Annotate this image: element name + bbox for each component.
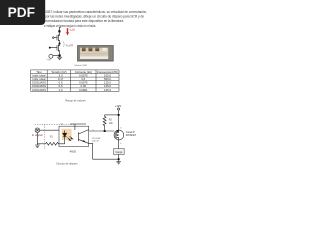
wire load to rail — [118, 154, 120, 159]
svg-text:Tipo: Tipo — [36, 70, 42, 74]
svg-text:Rango de valores: Rango de valores — [65, 99, 86, 103]
svg-text:Corriente (kA): Corriente (kA) — [75, 70, 92, 74]
svg-text:vS(t): vS(t) — [47, 58, 52, 61]
LED D1 — [63, 130, 73, 144]
svg-text:Indiv. ideal: Indiv. ideal — [32, 77, 45, 81]
wire ground to R1 — [37, 143, 45, 145]
svg-text:MOSFET: MOSFET — [126, 134, 137, 137]
svg-text:125.0: 125.0 — [104, 84, 111, 88]
note text — [92, 138, 101, 142]
svg-text:COOLMOS: COOLMOS — [32, 81, 46, 85]
svg-text:0.0075: 0.0075 — [79, 81, 88, 85]
gate terminal Q1 — [53, 37, 55, 39]
svg-text:100.0: 100.0 — [104, 73, 111, 77]
svg-text:5: 5 — [93, 129, 94, 131]
svg-text:Frecuencia (kHz): Frecuencia (kHz) — [97, 70, 118, 74]
svg-text:COOLMOS: COOLMOS — [32, 88, 46, 92]
opto LED highlight — [62, 129, 72, 140]
wire +12V down — [118, 110, 120, 131]
phototransistor — [75, 126, 89, 143]
voltage source V1 — [49, 54, 53, 58]
svg-text:0.0075: 0.0075 — [79, 73, 88, 77]
svg-text:por las redes investigadas, di: por las redes investigadas, dibuje un ci… — [45, 14, 144, 18]
emitter wire to rail — [89, 143, 93, 159]
svg-text:4N35: 4N35 — [70, 150, 77, 154]
base pin wire — [70, 124, 86, 126]
svg-text:100 nF: 100 nF — [92, 141, 99, 143]
svg-text:0.6: 0.6 — [59, 84, 63, 88]
LED emission arrows — [68, 138, 71, 141]
node +12V split — [118, 114, 120, 116]
node bottom — [59, 54, 61, 56]
input source P1 — [35, 128, 59, 144]
wire R2 bottom to gate node — [104, 127, 106, 131]
svg-text:Circuito de disparo: Circuito de disparo — [56, 162, 78, 166]
svg-text:COOLMOS: COOLMOS — [32, 84, 46, 88]
svg-text:125.0: 125.0 — [104, 88, 111, 92]
svg-text:+12V: +12V — [115, 104, 122, 108]
svg-text:Tensión (kV): Tensión (kV) — [51, 70, 66, 74]
svg-text:In signal: In signal — [32, 134, 43, 137]
transistor Q2 (lower MOSFET) — [50, 47, 57, 49]
resistor R1 — [46, 142, 65, 145]
svg-text:Indiv. ideal: Indiv. ideal — [32, 73, 45, 77]
svg-text:3.3: 3.3 — [59, 73, 63, 77]
svg-text:500.0: 500.0 — [104, 77, 111, 81]
node top — [58, 30, 60, 32]
resistor R2 label — [109, 119, 114, 126]
gate wire — [89, 130, 115, 132]
resistor R2 — [103, 115, 106, 127]
transistor Q1 MOSFET — [114, 130, 124, 149]
label vDS(t) — [64, 42, 74, 48]
svg-text:0.6: 0.6 — [59, 81, 63, 85]
bottom rail — [93, 158, 119, 160]
svg-text:conmutación forzada para este: conmutación forzada para este dispositiv… — [45, 19, 124, 23]
svg-text:1.0: 1.0 — [59, 88, 63, 92]
svg-text:0.36: 0.36 — [81, 84, 87, 88]
ground — [118, 160, 120, 161]
paragraph text — [44, 10, 147, 28]
junction gate/mosfet — [117, 130, 119, 132]
optocoupler U1 box — [59, 126, 89, 146]
power terminal — [118, 108, 120, 110]
MOSFET label — [120, 128, 136, 145]
svg-text:PDF: PDF — [8, 5, 35, 20]
wire top stub — [58, 28, 60, 34]
svg-text:Carga: Carga — [115, 151, 122, 154]
wire to R2 top — [105, 114, 119, 116]
svg-text:0.6: 0.6 — [81, 77, 85, 81]
transistor Q1 (upper MOSFET) — [54, 37, 57, 39]
wire source down — [36, 133, 38, 144]
dashed region — [35, 124, 76, 149]
junction ground — [118, 158, 120, 160]
current arrow iD(t) — [66, 28, 75, 36]
junction R2/gate — [104, 130, 106, 132]
load box Carga — [114, 149, 125, 155]
svg-text:Módulo IGBT: Módulo IGBT — [75, 65, 89, 67]
svg-text:vDS(t): vDS(t) — [66, 43, 73, 48]
ground input — [35, 144, 46, 148]
ground — [57, 57, 62, 59]
svg-text:0.17: 0.17 — [58, 77, 64, 81]
svg-text:0.0061: 0.0061 — [79, 88, 88, 92]
svg-text:125.0: 125.0 — [104, 81, 111, 85]
gate node Q2 — [49, 47, 51, 49]
wire source to opto — [40, 129, 59, 131]
PDF badge — [0, 0, 45, 25]
svg-text:IGBT, indicar sus parámetros c: IGBT, indicar sus parámetros característ… — [45, 10, 147, 14]
node mid — [59, 43, 61, 45]
